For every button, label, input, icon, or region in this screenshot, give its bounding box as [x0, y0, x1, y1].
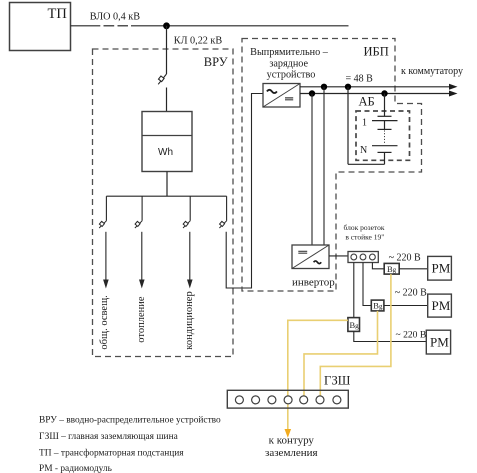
svg-text:к коммутатору: к коммутатору: [401, 66, 463, 77]
branch 1 wire upper: [105, 196, 107, 221]
wire Bg2 to RM2: [384, 305, 428, 307]
svg-text:1: 1: [362, 118, 367, 129]
radio module RM3: [426, 330, 450, 354]
switch QS main disconnector: [158, 74, 166, 84]
wire DC bus lower 48V: [300, 93, 449, 95]
svg-text:~ 220 В: ~ 220 В: [395, 288, 427, 299]
svg-text:общ. освещ.: общ. освещ.: [99, 295, 110, 349]
svg-text:кондиционер: кондиционер: [184, 291, 195, 349]
switch branch 4: [219, 221, 226, 228]
node dot upper bus at inverter drop: [321, 84, 327, 90]
ground wire from Bg1 to GZSh: [320, 274, 391, 396]
socket block X1: [348, 252, 378, 263]
ground wire from Bg3 to GZSh: [288, 320, 348, 396]
svg-text:ВРУ: ВРУ: [204, 55, 228, 69]
filter Bg1: [384, 263, 399, 274]
branch 4 wire upper: [226, 196, 228, 221]
svg-text:АБ: АБ: [359, 94, 375, 108]
svg-text:КЛ 0,22 кВ: КЛ 0,22 кВ: [174, 36, 223, 47]
radio module RM2: [428, 294, 452, 317]
svg-text:Вg: Вg: [350, 320, 360, 330]
svg-text:ВРУ – вводно-распределительное: ВРУ – вводно-распределительное устройств…: [39, 415, 221, 426]
ground wire GZSh to earth loop: [287, 404, 289, 429]
svg-text:ТП – трансформаторная подстанц: ТП – трансформаторная подстанция: [39, 448, 184, 459]
svg-text:Wh: Wh: [158, 147, 173, 158]
svg-text:N: N: [360, 145, 367, 156]
enclosure AB battery (dashed): [356, 111, 410, 160]
ground wire from Bg2 to GZSh: [304, 311, 378, 397]
svg-text:РМ - радиомодуль: РМ - радиомодуль: [39, 464, 112, 473]
wire socket to Bg2: [363, 262, 371, 305]
svg-text:ВЛО 0,4 кВ: ВЛО 0,4 кВ: [90, 12, 140, 23]
switch branch 1: [99, 221, 106, 228]
svg-text:отопление: отопление: [136, 296, 147, 343]
enclosure UPS IBP (dashed polygon): [242, 39, 422, 292]
node dot lower bus at inverter drop: [309, 90, 315, 96]
branch 3 wire upper: [189, 196, 191, 221]
branch 3 wire lower with arrow: [189, 232, 191, 280]
svg-text:Вg: Вg: [373, 301, 383, 311]
svg-text:Выпрямительно –: Выпрямительно –: [250, 47, 329, 58]
wire switch to meter: [166, 88, 168, 112]
branch 1 wire lower with arrow: [105, 232, 107, 280]
battery GB string: [348, 87, 398, 165]
wire DC bus upper 48V: [300, 86, 449, 88]
svg-text:устройство: устройство: [267, 69, 316, 80]
filter Bg2: [371, 300, 384, 311]
branch 2 wire lower with arrow: [141, 232, 143, 280]
enclosure VRU (dashed): [93, 49, 234, 357]
wire node to main switch: [166, 26, 168, 74]
svg-text:РМ: РМ: [432, 261, 451, 276]
switch branch 3: [183, 221, 190, 228]
wire Bg1 to RM1: [399, 268, 428, 270]
svg-text:блок розеток: блок розеток: [344, 223, 385, 232]
wire socket to Bg1: [372, 262, 384, 268]
svg-text:= 48 В: = 48 В: [346, 74, 374, 85]
main grounding bus GZSh: [227, 390, 348, 408]
wire meter to bus: [166, 172, 168, 197]
svg-text:~ 220 В: ~ 220 В: [389, 253, 421, 264]
svg-text:~ 220 В: ~ 220 В: [396, 329, 427, 340]
svg-text:инвертор: инвертор: [292, 277, 335, 289]
wire socket to Bg3: [353, 262, 355, 317]
svg-text:ТП: ТП: [48, 6, 68, 22]
node junction KL tap: [163, 22, 170, 29]
svg-text:к контуру: к контуру: [269, 434, 315, 446]
bus VRU distribution: [106, 195, 226, 197]
rectifier-charger U1: [263, 84, 300, 108]
branch 2 wire upper: [141, 196, 143, 221]
box TP (transformer substation): [10, 3, 71, 51]
inverter U2: [292, 245, 329, 269]
wire VLO 0,4 kV overhead line: [71, 25, 349, 27]
wire inverter input from lower bus: [311, 94, 313, 246]
svg-text:ИБП: ИБП: [364, 45, 389, 59]
filter Bg3: [348, 318, 360, 332]
meter Wh: [142, 112, 192, 172]
node dot lower bus at battery: [381, 90, 387, 96]
svg-text:ГЗШ – главная заземляющая шина: ГЗШ – главная заземляющая шина: [39, 432, 179, 442]
svg-text:зарядное: зарядное: [269, 58, 308, 69]
wire Bg3 to RM3: [354, 331, 427, 341]
wire feed to UPS (branch 4 to rectifier input): [226, 94, 263, 289]
switch branch 2: [135, 221, 142, 228]
node dot upper bus at battery loop: [345, 84, 351, 90]
svg-text:РМ: РМ: [430, 335, 449, 350]
svg-text:в стойке 19": в стойке 19": [345, 232, 384, 241]
svg-text:Вg: Вg: [387, 264, 397, 274]
wire inverter input from upper bus: [323, 87, 325, 245]
svg-text:ГЗШ: ГЗШ: [324, 374, 351, 388]
radio module RM1: [428, 256, 452, 280]
svg-text:заземления: заземления: [265, 447, 318, 459]
svg-text:РМ: РМ: [432, 298, 451, 313]
wire inverter to socket block: [329, 255, 348, 257]
